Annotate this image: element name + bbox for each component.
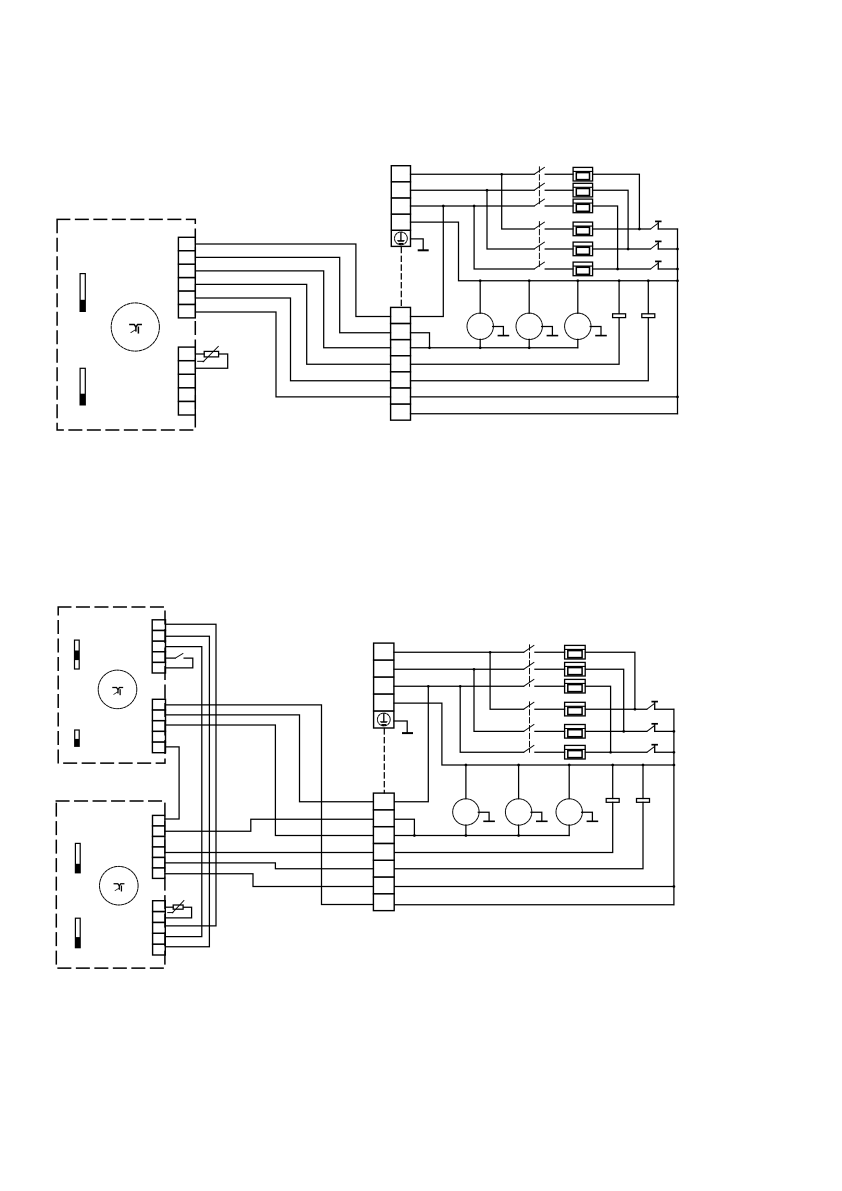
connector J4 [152, 699, 165, 752]
junction [634, 708, 637, 711]
wire [545, 268, 573, 270]
junction [479, 346, 482, 349]
thermal cutout F5 [647, 724, 657, 732]
junction [459, 685, 462, 688]
switch S6 [534, 262, 544, 269]
lamp H1 [467, 313, 508, 339]
gang link (dashed) [529, 645, 531, 687]
wire [411, 333, 430, 348]
wire [165, 647, 202, 937]
wire [394, 819, 414, 835]
junction [528, 279, 531, 282]
wire [394, 904, 674, 906]
wire [165, 874, 374, 887]
heater bar E-B [80, 368, 85, 405]
wire [394, 703, 674, 765]
wire [394, 685, 524, 687]
oven unit enclosure (dashed) [57, 219, 195, 430]
switch S7 [524, 645, 534, 652]
wire [195, 298, 390, 381]
lamp H5 [505, 799, 546, 825]
junction [428, 346, 431, 349]
wire [479, 281, 481, 314]
lamp H4 [453, 799, 494, 825]
junction [618, 279, 621, 282]
motor M3 [100, 866, 139, 905]
wire [394, 686, 428, 802]
wire [528, 281, 530, 314]
grill unit enclosure (dashed) [56, 801, 165, 968]
heater bar E-D [75, 730, 80, 746]
heating element E4 [573, 222, 593, 236]
wire [394, 721, 407, 732]
wire [518, 765, 520, 799]
connector J5 [153, 815, 165, 878]
thermal cutout F1 [651, 221, 661, 229]
wire [642, 765, 644, 799]
junction [517, 834, 520, 837]
junction [627, 248, 630, 251]
connector J1 [178, 237, 195, 318]
junction [568, 764, 571, 767]
heating element E6 [573, 262, 593, 276]
wire [593, 174, 640, 229]
lamp H3 [565, 313, 606, 339]
wire [195, 271, 390, 348]
junction [465, 764, 468, 767]
capacitor C3 [606, 799, 619, 803]
wire [474, 206, 534, 269]
junction [676, 396, 679, 399]
wire [411, 189, 535, 191]
wire [394, 802, 643, 869]
switch S12 [524, 745, 534, 752]
connector J6 [153, 901, 166, 955]
wire [465, 825, 467, 836]
wire [658, 228, 677, 230]
wire [545, 248, 573, 250]
heating element E9 [565, 679, 586, 693]
ground [419, 249, 428, 251]
motor M2 label [113, 687, 123, 694]
wire [195, 354, 227, 368]
switch S1 [534, 167, 544, 174]
wire [195, 312, 390, 397]
wire [593, 190, 629, 249]
wire [411, 239, 424, 249]
wire [593, 206, 618, 269]
thermal cutout F4 [647, 702, 657, 710]
wire [585, 686, 610, 752]
wire [411, 318, 620, 365]
junction [676, 279, 679, 282]
wire [165, 819, 374, 831]
wire [394, 835, 569, 837]
wire [593, 228, 651, 230]
wire [166, 725, 374, 836]
wire [411, 318, 649, 381]
wire [166, 705, 374, 905]
lamp H6 [556, 799, 597, 825]
connector J3 [152, 620, 165, 673]
NTC sensor R1 [198, 346, 219, 361]
door switch S13 [175, 654, 183, 659]
wire [535, 685, 565, 687]
wire [460, 686, 524, 752]
motor M2 [98, 670, 137, 709]
NTC sensor R2 [168, 901, 184, 913]
wire [655, 730, 674, 732]
thermal cutout F6 [647, 745, 657, 753]
switch S10 [524, 702, 534, 709]
junction [528, 346, 531, 349]
wire [165, 906, 173, 908]
wire [535, 651, 565, 653]
wire [165, 636, 209, 947]
heating element E11 [565, 725, 586, 739]
connector J2 [178, 347, 195, 415]
wire [545, 173, 573, 175]
wire [195, 244, 390, 317]
wire [577, 281, 579, 314]
wire [487, 190, 534, 249]
PE earth symbol X3 [377, 713, 390, 726]
wire [474, 669, 524, 731]
wire [612, 765, 614, 799]
switch S8 [524, 662, 534, 669]
heater bar E-E [75, 843, 80, 872]
wire [518, 825, 520, 836]
heating element E2 [573, 183, 593, 197]
heater bar E-A fill [80, 300, 85, 312]
wire [411, 413, 678, 415]
junction [479, 279, 482, 282]
wire [585, 669, 624, 731]
switch S11 [524, 725, 534, 732]
gang link (dashed) [538, 167, 540, 206]
wire [545, 205, 573, 207]
junction [638, 228, 641, 231]
wire [465, 765, 467, 799]
switch S5 [534, 242, 544, 249]
junction [489, 651, 492, 654]
switch S9 [524, 679, 534, 686]
wire [577, 339, 579, 348]
junction [676, 268, 679, 271]
wire [165, 907, 191, 918]
terminal strip X2 [391, 307, 411, 420]
junction [473, 668, 476, 671]
wire [411, 396, 678, 398]
PE earth symbol X1 [395, 232, 408, 245]
wire [166, 658, 193, 668]
gang link (dashed) [538, 222, 540, 269]
wire [535, 751, 565, 753]
heater bar E-C fill [75, 651, 80, 661]
wire [411, 206, 444, 317]
junction [622, 730, 625, 733]
wire [593, 248, 651, 250]
capacitor C1 [613, 314, 626, 318]
heating element E10 [565, 702, 586, 716]
wire [585, 708, 647, 710]
wire [166, 715, 374, 802]
heating element E3 [573, 199, 593, 213]
wire [195, 353, 204, 355]
switch S3 [534, 199, 544, 206]
wire (dashed PE link) [383, 728, 385, 793]
motor M3 label [114, 884, 124, 891]
heating element E5 [573, 242, 593, 256]
motor M1 label [130, 325, 141, 333]
terminal strip X3 [374, 643, 394, 728]
wire [658, 268, 677, 270]
wire [593, 268, 651, 270]
wire [585, 652, 635, 709]
junction [673, 764, 676, 767]
wire [655, 751, 674, 753]
wire [165, 852, 374, 854]
junction [427, 685, 430, 688]
junction [616, 268, 619, 271]
heating element E12 [565, 745, 586, 759]
wire [647, 281, 649, 314]
junction [673, 730, 676, 733]
thermal cutout F3 [651, 261, 661, 269]
junction [413, 834, 416, 837]
wire [655, 708, 674, 710]
wire [545, 189, 573, 191]
wire [585, 751, 647, 753]
gang link (dashed) [529, 702, 531, 753]
wire [528, 339, 530, 348]
wire [394, 802, 613, 852]
wire [568, 765, 570, 799]
junction [517, 764, 520, 767]
junction [673, 885, 676, 888]
wire [394, 886, 674, 888]
wire [165, 863, 374, 869]
heater bar E-A [80, 274, 85, 312]
heater bar E-E fill [75, 864, 80, 873]
capacitor C2 [642, 314, 655, 318]
wire [673, 709, 675, 905]
heater bar E-F [75, 918, 80, 948]
junction [611, 764, 614, 767]
terminal strip X1 [391, 166, 410, 247]
heater bar E-B fill [80, 394, 85, 405]
terminal strip X4 [373, 793, 394, 911]
wire [677, 229, 679, 414]
heater bar E-C [75, 640, 80, 669]
wire [545, 228, 573, 230]
junction [642, 764, 645, 767]
switch S4 [534, 222, 544, 229]
wire [585, 730, 647, 732]
wire [166, 657, 176, 659]
junction [465, 834, 468, 837]
wire [535, 708, 565, 710]
wire [490, 652, 524, 709]
wire [479, 339, 481, 348]
wire [568, 825, 570, 836]
wire [535, 730, 565, 732]
junction [676, 248, 679, 251]
junction [442, 205, 445, 208]
fan unit enclosure (dashed) [58, 607, 165, 763]
wire [535, 668, 565, 670]
motor M1 [111, 303, 159, 351]
wire [165, 747, 179, 819]
junction [473, 205, 476, 208]
thermal cutout F2 [651, 241, 661, 249]
capacitor C4 [637, 799, 650, 803]
junction [673, 751, 676, 754]
wire [502, 174, 535, 229]
wire [394, 651, 524, 653]
wire [195, 257, 390, 332]
wire [411, 173, 535, 175]
heating element E8 [565, 662, 586, 676]
ground [403, 732, 412, 734]
wire [195, 284, 390, 364]
heating element E1 [573, 167, 593, 181]
heating element E7 [565, 645, 586, 659]
wire [618, 281, 620, 314]
wire [658, 248, 677, 250]
junction [647, 279, 650, 282]
junction [576, 279, 579, 282]
wire [411, 205, 535, 207]
junction [486, 189, 489, 192]
wire [411, 222, 678, 281]
lamp H2 [516, 313, 557, 339]
junction [500, 173, 503, 176]
wire [411, 347, 578, 349]
wire (dashed PE link) [400, 246, 402, 307]
wire [394, 668, 524, 670]
heater bar E-D fill [75, 739, 80, 746]
wire [165, 624, 216, 926]
heater bar E-F fill [75, 937, 80, 948]
switch S2 [534, 183, 544, 190]
junction [609, 751, 612, 754]
